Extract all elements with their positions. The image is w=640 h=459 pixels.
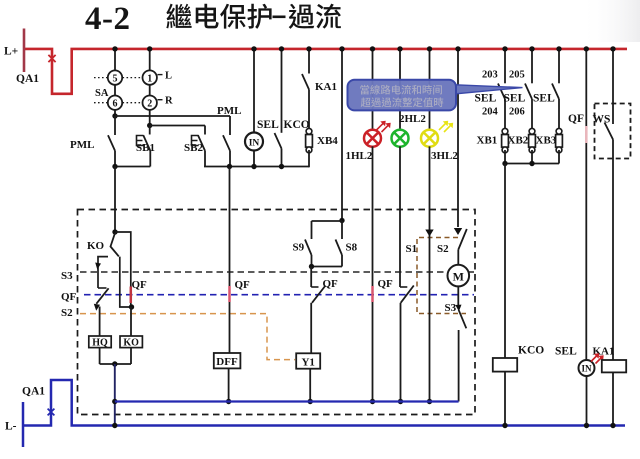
svg-text:XB1: XB1 <box>477 135 498 147</box>
node S9S8 bottom <box>309 264 314 269</box>
coil KO <box>120 336 142 348</box>
wire DFF column <box>229 167 231 354</box>
nodes on L- bus <box>112 423 616 428</box>
contact SEL1 with numbers <box>482 49 505 128</box>
label XB3 <box>536 135 557 147</box>
node inner blue left <box>112 399 117 404</box>
label 3HL2 <box>431 150 458 162</box>
label XB1 <box>477 135 498 147</box>
wire 3HL2 down <box>429 146 431 401</box>
terminal XB1 <box>502 128 509 152</box>
label SEL1 <box>475 93 497 105</box>
svg-text:KA1: KA1 <box>315 81 337 93</box>
wire S9S8 bottom bar <box>312 266 343 268</box>
terminal XB4 <box>306 128 313 152</box>
wire XB3 down <box>558 150 560 164</box>
svg-text:WS: WS <box>593 114 611 126</box>
svg-text:PML: PML <box>70 139 94 151</box>
svg-text:5: 5 <box>113 73 118 84</box>
svg-text:KCO: KCO <box>518 345 544 357</box>
node KO top <box>112 229 117 234</box>
node coils join <box>112 361 117 366</box>
svg-text:QF: QF <box>568 113 584 125</box>
switch S3 contact <box>445 286 467 401</box>
svg-text:SB2: SB2 <box>184 142 203 154</box>
coil Y1 <box>296 353 320 368</box>
contact QF red mark left <box>130 287 133 304</box>
switch SA circle 5 <box>108 70 122 84</box>
wire KO coil down <box>130 348 132 364</box>
wire coils join <box>100 363 131 365</box>
svg-text:HQ: HQ <box>92 337 108 348</box>
wire S9S8 top bar <box>312 220 343 222</box>
wire S3 bypass <box>120 257 132 307</box>
svg-text:XB3: XB3 <box>536 135 557 147</box>
svg-text:PML: PML <box>217 105 241 117</box>
label KCO bottom <box>518 345 544 357</box>
wire SA-1 to bus <box>149 49 151 71</box>
svg-text:KCO: KCO <box>284 119 310 131</box>
linkage S3 dashed <box>80 271 474 273</box>
wire HQ coil down <box>99 348 101 364</box>
svg-text:M: M <box>453 269 464 283</box>
label QF interior2 <box>235 279 251 291</box>
wire bottom bus left pair <box>115 166 150 168</box>
switch S1 arrow <box>406 230 434 256</box>
label S2 border <box>61 307 73 319</box>
wire inner negative link <box>115 400 459 402</box>
coil KA1 <box>602 360 626 372</box>
wire QF column right <box>585 49 587 360</box>
terminal XB3 <box>556 128 563 152</box>
node 2HL2 blue <box>398 399 403 404</box>
wire motor column top <box>457 49 459 227</box>
svg-text:2HL2: 2HL2 <box>399 113 426 125</box>
label WS <box>593 114 611 126</box>
node Y1 blue <box>308 399 313 404</box>
wire DFF down <box>228 368 230 401</box>
svg-text:XB4: XB4 <box>317 135 338 147</box>
nodes on L+ bus <box>112 46 615 51</box>
node 1HL2 blue <box>370 399 375 404</box>
coil KCO <box>493 358 517 372</box>
switch SA circle 6 <box>108 96 122 110</box>
node XB2 join <box>529 161 534 166</box>
label SEL top <box>257 119 279 131</box>
svg-text:QF: QF <box>132 279 148 291</box>
svg-text:206: 206 <box>509 107 525 118</box>
contact S9 <box>293 221 312 267</box>
power rail L- bus <box>23 380 625 426</box>
svg-text:QF: QF <box>61 291 77 303</box>
label QF interior1 <box>132 279 148 291</box>
label QA1 top <box>16 73 39 85</box>
linkage S2 dashed orange <box>80 314 295 360</box>
node below SA-6 <box>112 113 117 118</box>
label L+ <box>4 46 18 58</box>
node DFF blue <box>226 399 231 404</box>
svg-text:QF: QF <box>323 278 339 290</box>
svg-text:SEL: SEL <box>257 119 279 131</box>
svg-text:1HL2: 1HL2 <box>346 150 373 162</box>
wire to KO coil <box>130 307 132 336</box>
wire XB2 down <box>531 150 533 164</box>
flash arrows 3HL2 <box>439 121 453 132</box>
lamp 3HL2 <box>421 130 438 147</box>
wire 2HL2 column top <box>399 49 401 130</box>
wire S8 feed <box>341 49 343 221</box>
svg-text:203: 203 <box>482 70 498 81</box>
node PML2 bottom <box>227 164 232 169</box>
label PML left <box>70 139 94 151</box>
coil DFF <box>214 353 241 368</box>
svg-text:S9: S9 <box>293 242 305 254</box>
svg-text:KO: KO <box>123 337 139 348</box>
svg-text:IN: IN <box>249 138 260 148</box>
breaker QA1 bottom stub <box>22 402 25 447</box>
svg-text:R: R <box>165 96 173 107</box>
SA dotted linkages <box>94 78 142 103</box>
label QF interior4 <box>378 278 394 290</box>
contact PML1 <box>108 116 115 167</box>
label SB1 <box>136 142 155 154</box>
svg-text:L+: L+ <box>4 46 18 58</box>
wire 2HL2 down <box>399 146 402 401</box>
node SEL bottom <box>279 164 284 169</box>
label KA1 top <box>315 81 337 93</box>
svg-text:XB2: XB2 <box>508 135 529 147</box>
label PML right <box>217 105 241 117</box>
contact QF aux 2HL2 <box>400 286 414 303</box>
wire 1HL2 down <box>372 146 374 401</box>
svg-text:1: 1 <box>147 73 152 84</box>
label XB4 <box>317 135 338 147</box>
wire XB1 down <box>504 150 506 164</box>
contact SEL top <box>275 49 282 167</box>
coil HQ <box>89 336 111 348</box>
wire 1HL2 column top <box>372 49 374 130</box>
svg-text:QA1: QA1 <box>22 386 45 398</box>
svg-text:L-: L- <box>5 421 17 433</box>
wire node2 to SB2 <box>150 125 205 127</box>
enclosure control dashed box <box>78 210 476 415</box>
contact PML2 <box>223 116 230 167</box>
wire bottom bus right group <box>204 166 309 168</box>
pushbutton SB1 <box>137 126 151 167</box>
svg-text:4-2: 4-2 <box>85 1 131 37</box>
node S8 top <box>339 218 344 223</box>
label 1HL2 <box>346 150 373 162</box>
wire 3HL2 column top <box>429 49 431 130</box>
label KCO top <box>284 119 310 131</box>
svg-text:IN: IN <box>581 364 592 374</box>
contact SEL2 with numbers <box>509 49 532 128</box>
contact QF aux Y1 <box>311 267 325 354</box>
label SB2 <box>184 142 203 154</box>
wire SB column into box <box>114 167 116 233</box>
node IN bottom <box>251 164 256 169</box>
contact KO <box>87 233 119 256</box>
label QF right <box>568 113 584 125</box>
switch S2 contact <box>437 228 467 265</box>
wire XB4 to bus <box>308 150 310 167</box>
contact S8 <box>336 221 358 267</box>
wire KA1 down <box>612 372 614 425</box>
wire SA-1 to SA-2 <box>149 85 151 96</box>
svg-text:SEL: SEL <box>555 346 577 358</box>
wire coils to L- <box>114 364 116 426</box>
svg-text:S3: S3 <box>445 302 457 314</box>
svg-text:204: 204 <box>482 107 499 118</box>
flash arrows KA1 <box>591 353 604 363</box>
wire SA-2 down <box>149 110 151 126</box>
node KO coil top <box>129 304 134 309</box>
svg-text:KO: KO <box>87 240 105 252</box>
switch S2 arrow <box>94 304 100 311</box>
contact QF left <box>96 288 108 304</box>
switch SA circle 1 <box>143 70 157 84</box>
wire SA-5 to SA-6 <box>114 85 116 96</box>
enclosure WS dashed box <box>595 104 631 159</box>
svg-text:S3: S3 <box>61 270 73 282</box>
svg-text:SB1: SB1 <box>136 142 155 154</box>
svg-text:QF: QF <box>235 279 251 291</box>
contact WS <box>605 49 614 360</box>
svg-text:3HL2: 3HL2 <box>431 150 458 162</box>
contact QF right mark <box>585 126 588 143</box>
label KA1 bottom <box>593 346 615 358</box>
svg-text:SEL: SEL <box>475 93 497 105</box>
contact KA1 <box>302 49 309 128</box>
svg-text:S8: S8 <box>346 242 358 254</box>
svg-text:SA: SA <box>95 88 109 99</box>
linkage motor dashed box <box>417 238 466 314</box>
contact QF mark 1HL2 <box>371 286 374 302</box>
title text 4-2 继电保护-过流 <box>85 1 341 37</box>
label SEL3 <box>533 93 555 105</box>
label SEL bottom <box>555 346 577 358</box>
svg-text:Y1: Y1 <box>301 356 314 368</box>
svg-text:QA1: QA1 <box>16 73 39 85</box>
wire to HQ coil <box>99 307 101 337</box>
lamp 2HL2 <box>392 130 409 147</box>
svg-text:2: 2 <box>147 99 152 110</box>
label QA1 bottom <box>22 386 45 398</box>
breaker QA1 cross mark <box>48 55 55 62</box>
breaker QA1 bottom cross <box>48 409 55 416</box>
svg-text:205: 205 <box>509 70 525 81</box>
label R at SA <box>158 96 174 107</box>
relay coil IN top <box>245 49 263 167</box>
wire Y1 down <box>309 369 311 402</box>
node XB1 join <box>502 161 507 166</box>
label QF border <box>61 291 77 303</box>
power rail L+ bus <box>24 49 627 94</box>
node 3HL2 blue <box>427 399 432 404</box>
wire node6 to PML2 <box>115 115 230 117</box>
motor M <box>448 265 470 287</box>
svg-text:S1: S1 <box>406 243 418 255</box>
wire KCO down <box>504 372 506 426</box>
svg-text:6: 6 <box>113 99 118 110</box>
svg-text:QF: QF <box>378 278 394 290</box>
label 2HL2 <box>399 113 426 125</box>
switch S3 <box>61 257 108 288</box>
label XB2 <box>508 135 529 147</box>
flash arrows 1HL2 <box>377 121 391 132</box>
svg-text:DFF: DFF <box>216 356 238 368</box>
terminal XB2 <box>529 128 536 152</box>
label QF interior3 <box>323 278 339 290</box>
label SA <box>95 88 109 99</box>
node PML1 bottom <box>112 164 117 169</box>
label L- <box>5 421 17 433</box>
callout balloon <box>348 80 523 111</box>
wire XB join bus <box>505 163 559 165</box>
lamp 1HL2 <box>364 130 381 147</box>
wire SA-5 to bus <box>114 49 116 71</box>
wire SA-6 down <box>114 110 116 116</box>
svg-text:S2: S2 <box>437 243 449 255</box>
switch SA circle 2 <box>143 96 157 110</box>
node below SA-2 <box>147 123 152 128</box>
breaker QA1 top stub <box>23 29 26 73</box>
svg-text:S2: S2 <box>61 307 73 319</box>
pushbutton SB2 <box>192 126 206 167</box>
relay coil IN bottom <box>579 360 595 426</box>
svg-text:L: L <box>165 71 172 82</box>
wire KCO column <box>504 164 506 359</box>
linkage QF dashed blue <box>84 294 474 296</box>
svg-text:SEL: SEL <box>504 93 526 105</box>
contact QF mark DFF <box>228 286 231 302</box>
label L at SA <box>158 71 173 82</box>
contact SEL3 with numbers <box>552 49 559 128</box>
label SEL2 <box>504 93 526 105</box>
svg-text:SEL: SEL <box>533 93 555 105</box>
wire KO bypass jog <box>115 232 131 307</box>
